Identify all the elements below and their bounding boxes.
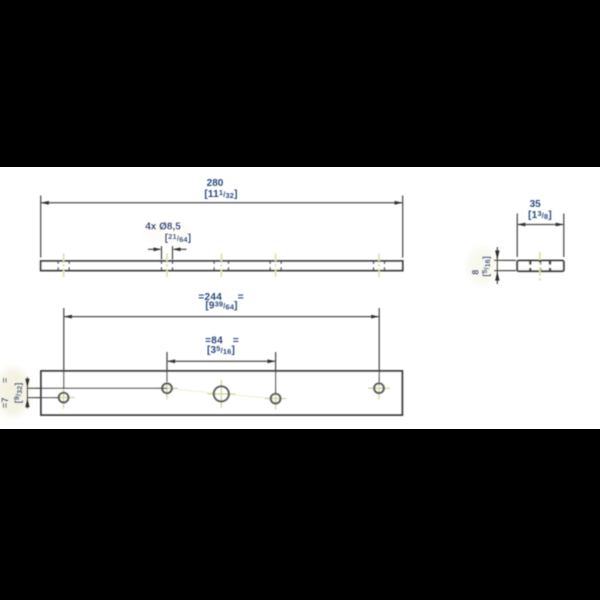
svg-text:=7 =: =7 = xyxy=(0,377,10,408)
svg-text:4x Ø8,5: 4x Ø8,5 xyxy=(145,222,181,233)
svg-text:[35/16]: [35/16] xyxy=(207,344,235,356)
svg-text:=: = xyxy=(238,292,244,303)
